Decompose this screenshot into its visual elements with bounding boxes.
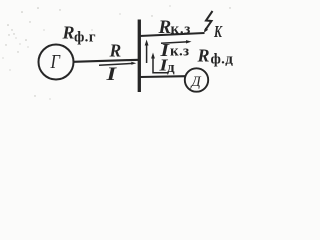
current arrow up at busbar (generator current into fault) xyxy=(145,40,149,64)
label R_к.з xyxy=(158,17,192,38)
short-circuit lightning bolt at K xyxy=(204,11,213,33)
busbar xyxy=(138,20,141,93)
svg-text:Д: Д xyxy=(190,74,202,90)
svg-text:R: R xyxy=(109,41,122,61)
generator G circle xyxy=(39,45,74,80)
current arrow I (under wire R) xyxy=(99,62,136,65)
svg-text:R: R xyxy=(62,23,75,43)
node K label xyxy=(213,23,223,41)
svg-text:R: R xyxy=(197,46,210,66)
svg-text:ф.г: ф.г xyxy=(74,30,96,46)
svg-text:ф.д: ф.д xyxy=(211,52,234,68)
wire R from generator to busbar xyxy=(74,60,140,62)
svg-text:к.з: к.з xyxy=(170,44,189,60)
wire R_ф.д from busbar to motor xyxy=(140,75,186,78)
label I_д xyxy=(158,56,175,76)
svg-text:R: R xyxy=(158,17,172,38)
current arrow I_д (bent, from motor branch up) xyxy=(151,53,168,73)
svg-text:I: I xyxy=(105,63,117,85)
label R_ф.д xyxy=(197,46,234,68)
svg-text:к.з: к.з xyxy=(171,22,192,38)
label I_к.з xyxy=(159,41,189,60)
svg-text:д: д xyxy=(167,60,175,76)
generator letter Г xyxy=(50,51,61,73)
label I (generator current) xyxy=(105,63,117,85)
svg-text:K: K xyxy=(213,23,223,41)
motor Д circle xyxy=(185,68,208,91)
svg-text:Г: Г xyxy=(50,51,61,73)
wire R_к.з from busbar to fault point K xyxy=(140,33,205,36)
current arrow I_к.з (above label) xyxy=(161,40,192,43)
label R_ф.г xyxy=(62,23,96,46)
